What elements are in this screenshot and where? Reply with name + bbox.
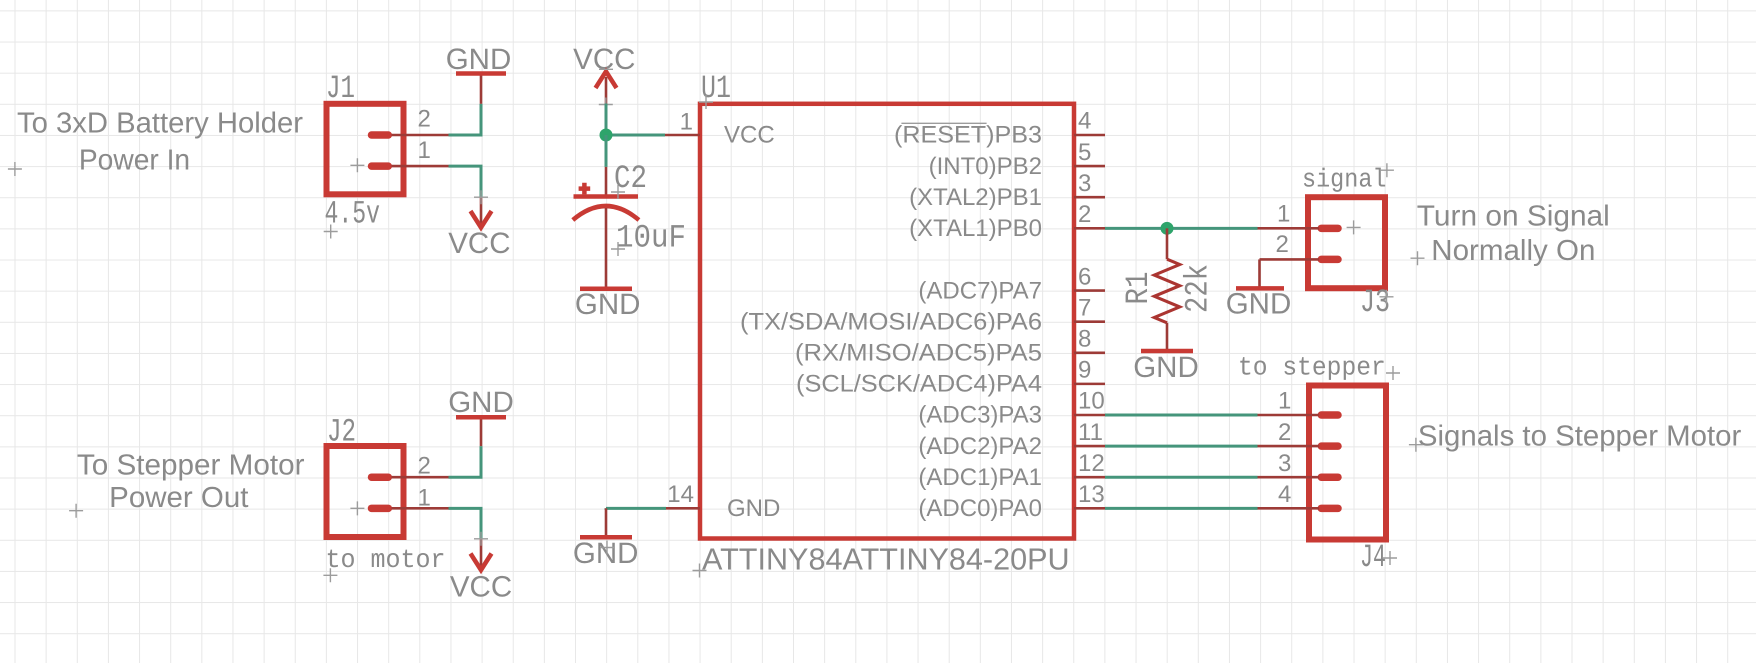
origin cross J4 label bbox=[1383, 551, 1397, 565]
wire J2 pin1 to VCC bbox=[449, 508, 482, 539]
pin 7 of U1 bbox=[1074, 320, 1105, 323]
supply symbol VCC below J2 bbox=[450, 539, 512, 603]
svg-text:(RESET)PB3: (RESET)PB3 bbox=[894, 122, 1042, 149]
svg-text:8: 8 bbox=[1078, 325, 1091, 352]
svg-text:Signals to Stepper Motor: Signals to Stepper Motor bbox=[1418, 420, 1742, 452]
svg-text:4.5v: 4.5v bbox=[325, 195, 381, 233]
svg-text:GND: GND bbox=[575, 288, 641, 321]
wire J2 pin2 to GND bbox=[449, 446, 482, 477]
pin 4 of U1 bbox=[1074, 134, 1105, 137]
svg-text:4: 4 bbox=[1278, 481, 1291, 508]
svg-text:to stepper: to stepper bbox=[1238, 353, 1386, 383]
svg-text:J3: J3 bbox=[1360, 284, 1390, 322]
supply symbol VCC below J1 bbox=[448, 197, 510, 260]
svg-text:(ADC1)PA1: (ADC1)PA1 bbox=[918, 464, 1042, 491]
svg-text:VCC: VCC bbox=[450, 571, 512, 604]
svg-text:(XTAL2)PB1: (XTAL2)PB1 bbox=[909, 184, 1042, 211]
pin 2 of J1 bbox=[392, 134, 449, 137]
origin cross annotation signal bbox=[1411, 251, 1425, 265]
annotation To Stepper Motor Power Out bbox=[77, 450, 305, 514]
svg-text:13: 13 bbox=[1078, 481, 1105, 508]
svg-text:signal: signal bbox=[1302, 165, 1387, 195]
pin 9 of U1 bbox=[1074, 383, 1105, 386]
pin 2 of U1 bbox=[1074, 227, 1105, 230]
origin cross VCC C2 bbox=[599, 98, 613, 112]
svg-text:GND: GND bbox=[727, 495, 780, 522]
pin 1 of J4 bbox=[1258, 414, 1320, 417]
origin cross VCC J1 bbox=[474, 190, 488, 204]
origin cross VCC J2 bbox=[474, 532, 488, 546]
svg-text:9: 9 bbox=[1078, 357, 1091, 384]
wire U1 pin 13 to J4 pin 4 bbox=[1105, 507, 1258, 510]
ground symbol above J1 bbox=[446, 43, 512, 104]
pin 1 of J2 bbox=[392, 507, 449, 510]
pin 2 of J4 bbox=[1258, 445, 1320, 448]
svg-text:(ADC7)PA7: (ADC7)PA7 bbox=[918, 277, 1042, 304]
capacitor C2 bbox=[573, 167, 639, 289]
ground symbol below U1 pin 14 bbox=[573, 508, 639, 570]
svg-text:22k: 22k bbox=[1179, 264, 1217, 313]
polarity plus of C2 bbox=[579, 183, 591, 195]
ground symbol below R1 bbox=[1133, 351, 1199, 384]
svg-text:Power In: Power In bbox=[79, 144, 190, 176]
svg-text:GND: GND bbox=[1133, 351, 1199, 384]
svg-text:To Stepper Motor: To Stepper Motor bbox=[77, 450, 305, 482]
svg-text:2: 2 bbox=[418, 106, 431, 133]
svg-text:2: 2 bbox=[1278, 419, 1291, 446]
svg-text:2: 2 bbox=[1275, 231, 1288, 258]
origin cross inside J3 bbox=[1347, 220, 1361, 234]
pin 1 VCC of U1 bbox=[665, 134, 700, 137]
pin 10 of U1 bbox=[1074, 414, 1105, 417]
svg-text:(XTAL1)PB0: (XTAL1)PB0 bbox=[909, 215, 1042, 242]
resistor R1 bbox=[1154, 228, 1179, 351]
origin cross J3 top bbox=[1380, 163, 1394, 177]
svg-text:(INT0)PB2: (INT0)PB2 bbox=[929, 153, 1042, 180]
origin cross U1 bbox=[693, 564, 707, 578]
svg-text:1: 1 bbox=[418, 137, 431, 164]
svg-text:to motor: to motor bbox=[326, 545, 446, 575]
pin 5 of U1 bbox=[1074, 165, 1105, 168]
pin 4 of J4 bbox=[1258, 507, 1320, 510]
ground symbol below C2 bbox=[575, 288, 641, 321]
pin 11 of U1 bbox=[1074, 445, 1105, 448]
svg-text:J2: J2 bbox=[327, 413, 356, 451]
svg-text:ATTINY84ATTINY84-20PU: ATTINY84ATTINY84-20PU bbox=[702, 543, 1070, 577]
pin 1 of J1 bbox=[392, 165, 449, 168]
svg-text:GND: GND bbox=[573, 537, 639, 570]
pin 6 of U1 bbox=[1074, 289, 1105, 292]
origin cross inside J2 bbox=[350, 501, 364, 515]
svg-text:Turn on Signal: Turn on Signal bbox=[1417, 200, 1610, 232]
wire U1 pin 11 to J4 pin 2 bbox=[1105, 445, 1258, 448]
origin cross 4.5v bbox=[324, 225, 338, 239]
pin 3 of J4 bbox=[1258, 476, 1320, 479]
svg-text:1: 1 bbox=[1278, 388, 1291, 415]
IC U1 ATTINY84 body bbox=[700, 104, 1074, 539]
svg-text:GND: GND bbox=[446, 43, 512, 76]
wire junction to C2 bbox=[605, 135, 608, 167]
svg-text:3: 3 bbox=[1278, 450, 1291, 477]
svg-text:11: 11 bbox=[1078, 419, 1103, 446]
svg-text:4: 4 bbox=[1078, 108, 1091, 135]
svg-text:VCC: VCC bbox=[724, 122, 775, 149]
svg-text:10: 10 bbox=[1078, 388, 1105, 415]
ground symbol below J3 pin 2 bbox=[1226, 259, 1292, 320]
pin 2 of J3 bbox=[1260, 258, 1320, 261]
wire U1 pin 14 to GND bbox=[606, 507, 666, 510]
svg-text:J4: J4 bbox=[1360, 539, 1386, 577]
origin cross GND pin14 bbox=[600, 541, 614, 555]
svg-text:(ADC2)PA2: (ADC2)PA2 bbox=[918, 433, 1042, 460]
origin cross to motor bbox=[323, 568, 337, 582]
svg-text:2: 2 bbox=[418, 453, 431, 480]
pin 12 of U1 bbox=[1074, 476, 1105, 479]
connector J3 bbox=[1308, 197, 1385, 288]
svg-text:To 3xD Battery Holder: To 3xD Battery Holder bbox=[17, 108, 303, 140]
origin cross J1 bbox=[350, 158, 364, 172]
svg-text:1: 1 bbox=[418, 485, 431, 512]
svg-text:J1: J1 bbox=[326, 70, 355, 108]
origin cross annotation power out bbox=[69, 504, 83, 518]
svg-text:R1: R1 bbox=[1120, 272, 1158, 305]
annotation To 3xD Battery Holder Power In bbox=[17, 108, 303, 177]
origin cross U1 label bbox=[699, 95, 713, 109]
svg-text:(SCL/SCK/ADC4)PA4: (SCL/SCK/ADC4)PA4 bbox=[796, 371, 1042, 398]
wire junction to U1 pin 1 bbox=[606, 134, 665, 137]
origin cross annotation stepper bbox=[1409, 438, 1423, 452]
svg-text:(TX/SDA/MOSI/ADC6)PA6: (TX/SDA/MOSI/ADC6)PA6 bbox=[740, 308, 1042, 335]
origin cross J4 top bbox=[1386, 366, 1400, 380]
overline over RESET bbox=[901, 122, 986, 124]
svg-text:5: 5 bbox=[1078, 139, 1091, 166]
svg-text:12: 12 bbox=[1078, 450, 1105, 477]
supply symbol VCC above C2 bbox=[573, 43, 635, 104]
svg-text:1: 1 bbox=[1277, 200, 1290, 227]
origin cross J3 label bbox=[1380, 290, 1394, 304]
svg-text:6: 6 bbox=[1078, 263, 1091, 290]
svg-text:VCC: VCC bbox=[448, 227, 510, 260]
svg-text:(RX/MISO/ADC5)PA5: (RX/MISO/ADC5)PA5 bbox=[795, 339, 1042, 366]
origin cross 10uF bbox=[611, 242, 625, 256]
pin 14 GND of U1 bbox=[666, 507, 700, 510]
wire U1 pin 12 to J4 pin 3 bbox=[1105, 476, 1258, 479]
junction node R1 bbox=[1161, 222, 1174, 235]
svg-text:Power Out: Power Out bbox=[109, 482, 248, 514]
pin 2 of J2 bbox=[392, 476, 449, 479]
pin 8 of U1 bbox=[1074, 351, 1105, 354]
svg-text:GND: GND bbox=[448, 386, 514, 419]
svg-text:10uF: 10uF bbox=[616, 219, 686, 257]
connector J2 bbox=[327, 446, 404, 537]
svg-text:GND: GND bbox=[1226, 287, 1292, 320]
pin 1 of J3 bbox=[1258, 227, 1320, 230]
svg-text:7: 7 bbox=[1078, 294, 1091, 321]
wire J1 pin1 to VCC bbox=[449, 166, 482, 197]
connector J4 bbox=[1309, 386, 1386, 540]
svg-text:3: 3 bbox=[1078, 170, 1091, 197]
svg-text:1: 1 bbox=[680, 109, 693, 136]
pin 3 of U1 bbox=[1074, 196, 1105, 199]
pin 13 of U1 bbox=[1074, 507, 1105, 510]
origin cross C2 bbox=[611, 185, 625, 199]
wire U1 pin 2 to J3 pin 1 bbox=[1105, 227, 1258, 230]
annotation Turn on Signal Normally On bbox=[1417, 200, 1610, 267]
wire J1 pin2 to GND bbox=[449, 104, 482, 135]
svg-text:14: 14 bbox=[667, 481, 694, 508]
svg-text:2: 2 bbox=[1078, 201, 1091, 228]
svg-text:(ADC0)PA0: (ADC0)PA0 bbox=[918, 495, 1042, 522]
junction node VCC bbox=[600, 129, 613, 142]
wire VCC to junction bbox=[605, 104, 608, 136]
wire U1 pin 10 to J4 pin 1 bbox=[1105, 413, 1258, 416]
connector J1 bbox=[327, 104, 404, 195]
origin cross annotation power in bbox=[8, 162, 22, 176]
svg-text:Normally On: Normally On bbox=[1431, 235, 1595, 267]
ground symbol above J2 bbox=[448, 386, 514, 446]
svg-text:(ADC3)PA3: (ADC3)PA3 bbox=[918, 402, 1042, 429]
